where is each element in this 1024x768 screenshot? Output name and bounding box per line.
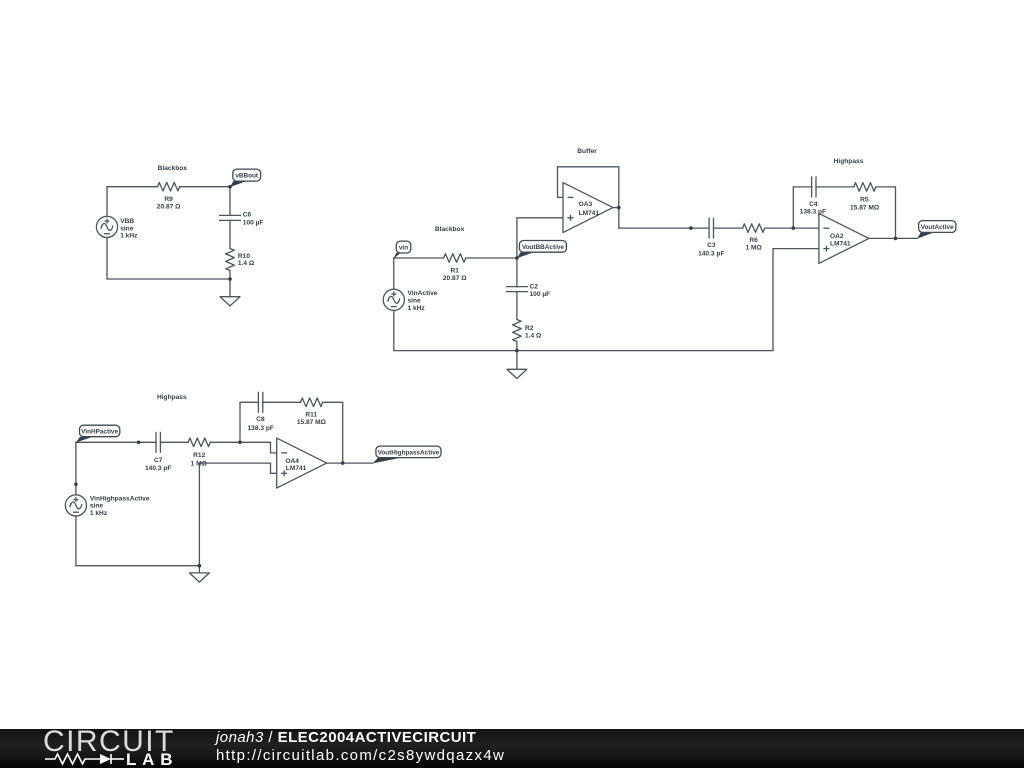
svg-text:R11: R11 — [305, 412, 317, 419]
svg-text:Blackbox: Blackbox — [435, 226, 465, 233]
svg-text:LM741: LM741 — [579, 210, 600, 217]
svg-text:LM741: LM741 — [830, 241, 851, 248]
svg-text:138.3 pF: 138.3 pF — [800, 209, 826, 216]
svg-text:sine: sine — [90, 503, 104, 510]
svg-text:1.4 Ω: 1.4 Ω — [525, 333, 542, 340]
svg-text:sine: sine — [408, 298, 422, 305]
svg-text:C3: C3 — [707, 242, 716, 249]
svg-text:vin: vin — [399, 245, 408, 252]
svg-text:OA2: OA2 — [830, 233, 844, 240]
svg-text:1 kHz: 1 kHz — [408, 305, 426, 312]
svg-text:15.87 MΩ: 15.87 MΩ — [297, 419, 327, 426]
svg-text:R9: R9 — [164, 196, 173, 203]
svg-text:OA4: OA4 — [285, 458, 299, 465]
svg-text:140.3 pF: 140.3 pF — [698, 250, 724, 257]
svg-text:LM741: LM741 — [286, 465, 307, 472]
svg-text:100 µF: 100 µF — [530, 291, 551, 298]
svg-text:Blackbox: Blackbox — [158, 165, 188, 172]
svg-text:R1: R1 — [450, 267, 459, 274]
svg-text:vBBout: vBBout — [235, 173, 259, 180]
svg-text:R2: R2 — [525, 325, 534, 332]
svg-text:R6: R6 — [749, 237, 758, 244]
svg-text:R10: R10 — [238, 253, 250, 260]
svg-text:R12: R12 — [193, 452, 205, 459]
svg-text:1 kHz: 1 kHz — [90, 510, 108, 517]
svg-text:100 µF: 100 µF — [243, 219, 264, 226]
svg-text:VoutHighpassActive: VoutHighpassActive — [378, 449, 440, 456]
svg-text:VoutActive: VoutActive — [921, 224, 954, 231]
svg-text:VinHPactive: VinHPactive — [81, 428, 118, 435]
svg-text:C2: C2 — [530, 284, 539, 291]
svg-text:138.3 pF: 138.3 pF — [248, 425, 274, 432]
svg-text:VBB: VBB — [120, 218, 134, 225]
svg-text:C8: C8 — [256, 416, 265, 423]
svg-text:OA3: OA3 — [579, 201, 593, 208]
svg-text:1 MΩ: 1 MΩ — [745, 245, 762, 252]
svg-text:VinHighpassActive: VinHighpassActive — [90, 495, 150, 502]
svg-text:VoutBBActive: VoutBBActive — [522, 244, 565, 251]
svg-text:Highpass: Highpass — [834, 158, 864, 165]
svg-text:1 kHz: 1 kHz — [120, 232, 138, 239]
svg-text:VinActive: VinActive — [408, 290, 438, 297]
svg-text:R5: R5 — [860, 197, 869, 204]
svg-text:sine: sine — [120, 225, 134, 232]
svg-text:20.87 Ω: 20.87 Ω — [443, 275, 467, 282]
svg-text:140.3 pF: 140.3 pF — [145, 465, 171, 472]
svg-text:15.87 MΩ: 15.87 MΩ — [850, 204, 880, 211]
svg-text:C4: C4 — [809, 201, 818, 208]
svg-text:20.87 Ω: 20.87 Ω — [157, 204, 181, 211]
svg-text:1.4 Ω: 1.4 Ω — [238, 260, 255, 267]
svg-text:C6: C6 — [243, 211, 252, 218]
svg-text:1 MΩ: 1 MΩ — [191, 461, 208, 468]
svg-text:Highpass: Highpass — [157, 394, 187, 401]
svg-text:C7: C7 — [154, 457, 163, 464]
svg-text:Buffer: Buffer — [577, 148, 597, 155]
